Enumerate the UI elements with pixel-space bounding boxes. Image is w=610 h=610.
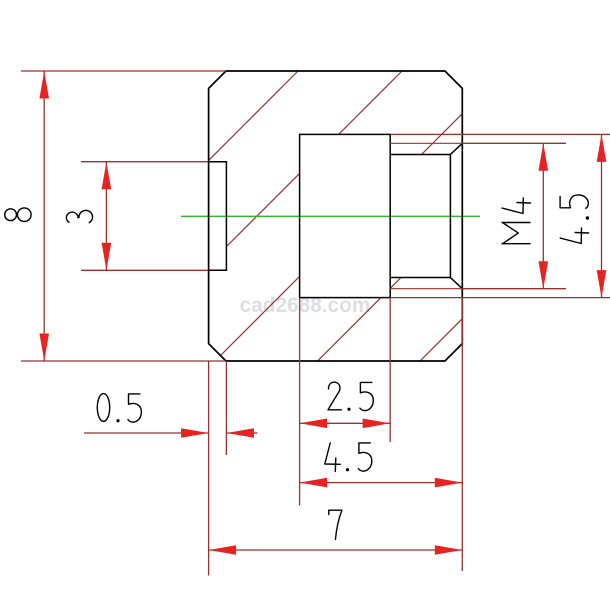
dim 0.5 line right segment bbox=[226, 432, 257, 434]
arrow dim 4.5 bottom left bbox=[300, 478, 328, 488]
dim 8 line bbox=[43, 71, 45, 361]
hatch line 3 bbox=[215, 71, 505, 361]
part outline (chamfered square body) bbox=[209, 71, 463, 361]
arrow dim M4 up bbox=[539, 143, 549, 171]
dim 4.5 right extension bottom bbox=[390, 297, 610, 299]
dim 0.5 right extension bbox=[225, 361, 227, 455]
red dimension / extension lines bbox=[21, 71, 610, 576]
text 0.5 bbox=[97, 394, 141, 423]
dim 2.5 line bbox=[300, 422, 391, 424]
arrow dim 3 up bbox=[102, 162, 112, 190]
dim 4.5 right line bbox=[601, 134, 603, 297]
hatch lines (section lines), clipped to material region bbox=[8, 71, 610, 361]
counterbore rectangle bbox=[300, 134, 391, 297]
arrow dim 2.5 right bbox=[363, 419, 391, 429]
dim M4 line bbox=[542, 143, 544, 288]
watermark cad2688.com bbox=[0, 294, 610, 318]
thread major diameter lines (dark red thin) bbox=[390, 143, 462, 288]
arrow dim 4.5 right down bbox=[597, 270, 607, 298]
dim 3 extension top bbox=[81, 161, 209, 163]
text 2.5 bbox=[328, 382, 373, 410]
text 3 (rotated) bbox=[66, 210, 92, 222]
dim 2.5 left extension bbox=[299, 298, 301, 506]
hatch line 4 bbox=[318, 71, 608, 361]
dim 0.5 line left segment bbox=[84, 432, 209, 434]
dim M4 extension top bbox=[462, 142, 566, 144]
arrow dim 2.5 left bbox=[300, 419, 328, 429]
dim 7 right extension bbox=[461, 298, 463, 571]
arrow dim 3 down bbox=[102, 243, 112, 270]
arrow dim 4.5 right up bbox=[597, 134, 607, 162]
dim 8 extension top bbox=[21, 70, 226, 72]
dim 2.5 right extension bbox=[389, 298, 391, 442]
text 4.5 right (rotated) bbox=[560, 195, 589, 244]
dim 3 extension bottom bbox=[81, 269, 209, 271]
arrow dim M4 down bbox=[539, 261, 549, 289]
arrow dim 8 down bbox=[39, 334, 49, 362]
hatch line 2 bbox=[112, 71, 402, 361]
arrow dim 7 left bbox=[209, 545, 237, 555]
text 4.5 bottom bbox=[325, 443, 372, 472]
thread minor bore outline bbox=[390, 143, 462, 288]
hatch line 1 bbox=[8, 71, 298, 361]
text 8 (rotated) bbox=[5, 208, 31, 222]
arrow dim 4.5 bottom right bbox=[435, 478, 463, 488]
dim 7 line bbox=[209, 549, 463, 551]
dimension texts (CAD stroke glyphs) bbox=[5, 195, 589, 540]
arrow dim 0.5 pointing right bbox=[181, 428, 209, 438]
hatch line 5 bbox=[420, 71, 610, 361]
text 7 bbox=[329, 510, 342, 539]
green centerline bbox=[181, 215, 480, 217]
dim 3 line bbox=[105, 162, 107, 271]
dim 0.5 left extension (shared with dim 7) bbox=[208, 361, 210, 576]
arrow dim 8 up bbox=[39, 71, 49, 99]
left pilot hole rectangle bbox=[209, 162, 227, 271]
dim 4.5 right extension top bbox=[390, 133, 610, 135]
arrow dim 7 right bbox=[435, 545, 463, 555]
dim M4 extension bottom bbox=[462, 288, 566, 290]
red arrowheads bbox=[39, 71, 606, 555]
dim 8 extension bottom bbox=[21, 360, 226, 362]
text M4 (rotated) bbox=[502, 198, 531, 244]
arrow dim 0.5 pointing left bbox=[226, 428, 254, 438]
dim 4.5 bottom line bbox=[300, 482, 463, 484]
